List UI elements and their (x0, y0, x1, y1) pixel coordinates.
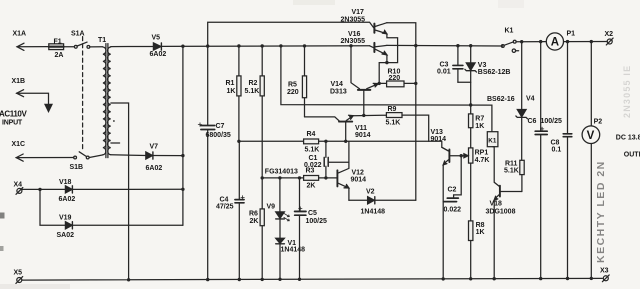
transistor V12 9014 (337, 141, 366, 200)
svg-text:A: A (551, 37, 559, 49)
wire main rail right of V16 (387, 44, 503, 47)
node R4-R1 (237, 140, 240, 143)
svg-text:R7: R7 (475, 116, 484, 123)
label AC110V INPUT (0, 110, 27, 127)
wire V2 line (349, 199, 416, 201)
svg-text:INPUT: INPUT (2, 120, 23, 127)
svg-text:D313: D313 (330, 89, 347, 96)
svg-text:2N3055: 2N3055 (341, 38, 366, 45)
svg-text:5.1K: 5.1K (245, 88, 260, 95)
svg-text:C4: C4 (220, 196, 229, 203)
node dropper-rail (414, 44, 417, 47)
svg-text:X1A: X1A (13, 31, 27, 38)
wire V11 emitter / R9 line (353, 114, 386, 117)
SECTION-C (437, 28, 640, 281)
capacitor C3 0.01 (437, 46, 463, 83)
resistor R2 5.1K (245, 46, 265, 178)
svg-text:C3: C3 (440, 61, 449, 68)
svg-text:R8: R8 (476, 222, 485, 229)
node aux rail R7 K1 (469, 103, 472, 106)
svg-text:1N4148: 1N4148 (281, 246, 306, 253)
svg-text:R11: R11 (505, 160, 518, 167)
svg-text:BS62-12B: BS62-12B (478, 69, 511, 76)
diode V2 1N4148 (361, 188, 386, 215)
wire C7 column (207, 46, 209, 280)
fuse F1 (49, 38, 74, 59)
wire V17 emitter jog (379, 34, 397, 84)
resistor R5 220 (287, 46, 307, 117)
terminal X5 (14, 269, 23, 283)
svg-text:4.7K: 4.7K (475, 157, 490, 164)
switch gang dashed link S1A-S1B (82, 37, 84, 152)
wire V17 collector to dropper column (387, 23, 416, 201)
terminal X1C (12, 141, 74, 161)
svg-text:X3: X3 (600, 268, 609, 275)
resistor R1 1K (226, 46, 242, 141)
svg-text:5.1K: 5.1K (305, 147, 320, 154)
ammeter P1 (546, 30, 575, 50)
zener V3 BS62-12B (465, 46, 511, 105)
svg-text:X1B: X1B (12, 78, 26, 85)
wire X4 down to V19 branch (40, 189, 65, 225)
svg-text:V12: V12 (352, 169, 365, 176)
svg-text:6A02: 6A02 (146, 165, 163, 172)
svg-text:0.01: 0.01 (437, 68, 451, 75)
switch S1A (71, 31, 103, 49)
svg-text:V19: V19 (59, 215, 72, 222)
capacitor C2 0.022 (444, 156, 462, 214)
resistor R8 1K (469, 221, 485, 279)
svg-text:6A02: 6A02 (59, 196, 76, 203)
svg-text:V5: V5 (152, 34, 161, 41)
diode V7 6A02 (146, 144, 183, 173)
svg-text:BS62-16: BS62-16 (487, 96, 515, 103)
wire rail after K1 (522, 41, 608, 43)
svg-text:R4: R4 (307, 131, 316, 138)
svg-text:1K: 1K (475, 123, 484, 130)
svg-text:X4: X4 (14, 181, 23, 188)
svg-text:AC110V: AC110V (0, 110, 27, 119)
node R3-R2 (261, 176, 264, 179)
svg-text:V11: V11 (355, 125, 367, 132)
scan streak bottom (0, 284, 70, 289)
svg-text:220: 220 (389, 75, 401, 82)
svg-text:X1C: X1C (12, 141, 26, 148)
svg-text:0.022: 0.022 (444, 207, 462, 214)
svg-text:KECHTY LED 2N: KECHTY LED 2N (595, 160, 607, 263)
wire top rail (208, 22, 374, 46)
node V7 junction (181, 154, 184, 157)
svg-text:2K: 2K (307, 182, 316, 189)
node R4-C1 (324, 140, 327, 143)
wire V13 emitter to ground (442, 165, 444, 279)
svg-text:V18: V18 (490, 200, 503, 207)
svg-text:FG314013: FG314013 (265, 169, 298, 176)
wire rectified DC node column (182, 46, 184, 225)
svg-text:T1: T1 (98, 37, 106, 44)
voltmeter P2 (582, 42, 602, 279)
svg-text:220: 220 (287, 89, 299, 96)
svg-text:X5: X5 (14, 269, 23, 276)
wire T1 secondary stub tap (111, 142, 120, 144)
svg-text:0.1: 0.1 (552, 146, 562, 153)
node V13 collector (460, 154, 463, 157)
switch S1B (70, 152, 90, 171)
wire aux rail (281, 46, 492, 132)
node V18 junction (181, 188, 184, 191)
svg-text:P1: P1 (567, 30, 576, 37)
node V11 collector (344, 140, 347, 143)
svg-text:5.1K: 5.1K (504, 168, 519, 175)
svg-text:R9: R9 (388, 106, 397, 113)
capacitor C5 100/25 (295, 178, 327, 279)
ground / bottom rail (22, 278, 603, 280)
scan streak top (293, 0, 335, 5)
diode V1 1N4148 (276, 238, 305, 279)
diode V19 SA02 (57, 215, 183, 239)
node V14 base tap (362, 114, 365, 117)
svg-text:47/25: 47/25 (216, 204, 234, 211)
terminal X3 (600, 268, 609, 282)
LED V9 (267, 178, 290, 238)
resistor R3 2K (304, 167, 319, 189)
terminal X2 (605, 31, 614, 45)
svg-text:C7: C7 (216, 123, 225, 130)
node R3-C1 (324, 176, 327, 179)
svg-text:R5: R5 (288, 81, 297, 88)
svg-text:9014: 9014 (355, 132, 371, 139)
svg-text:R2: R2 (249, 80, 258, 87)
wire T1 primary bottom to S1B (90, 155, 103, 158)
svg-text:R1: R1 (226, 80, 235, 87)
svg-text:S1B: S1B (70, 164, 84, 171)
capacitor C1 0.022 (304, 141, 349, 178)
SECTION-B (305, 9, 503, 280)
node R3-C5 (298, 176, 301, 179)
svg-text:C5: C5 (308, 210, 317, 217)
transistor V14 D313 (330, 46, 378, 116)
svg-text:1K: 1K (227, 88, 236, 95)
svg-text:SA02: SA02 (57, 232, 75, 239)
node emitter join (385, 61, 388, 64)
scan artifact left edge (0, 213, 5, 219)
svg-text:K1: K1 (488, 138, 497, 145)
svg-text:0.022: 0.022 (304, 162, 322, 169)
svg-text:3DG1008: 3DG1008 (486, 208, 516, 215)
node C7 top (206, 44, 209, 47)
diode V18 6A02 (40, 179, 183, 203)
node R3-V9 (278, 176, 281, 179)
svg-text:V3: V3 (478, 62, 487, 69)
svg-text:V: V (587, 130, 595, 142)
node raw DC top (181, 45, 184, 48)
svg-text:OUTPUT: OUTPUT (624, 152, 640, 159)
svg-text:V4: V4 (526, 95, 535, 102)
svg-text:V7: V7 (150, 144, 159, 151)
resistor R4 5.1K (304, 131, 320, 153)
svg-text:C2: C2 (448, 187, 457, 194)
svg-text:RP1: RP1 (475, 150, 489, 157)
potentiometer RP1 4.7K (461, 148, 489, 221)
svg-text:V13: V13 (431, 129, 444, 136)
transistor V16 2N3055 (341, 31, 387, 55)
svg-text:P2: P2 (594, 119, 603, 126)
svg-text:9014: 9014 (351, 177, 367, 184)
resistor R7 1K (469, 105, 485, 148)
svg-text:V18: V18 (59, 179, 72, 186)
terminal X1A (13, 31, 50, 51)
svg-text:6A02: 6A02 (150, 51, 167, 58)
wire V16 emitter down (386, 55, 388, 63)
wire R4 line (239, 141, 449, 151)
svg-text:2K: 2K (250, 218, 259, 225)
resistor R10 220 (379, 69, 416, 87)
svg-text:V17: V17 (352, 9, 365, 16)
resistor R6 2K (249, 178, 264, 280)
terminal X1B with neutral arrow (12, 78, 53, 112)
svg-text:100/25: 100/25 (306, 218, 328, 225)
switch K1 (501, 28, 521, 53)
wire K1 coil to V18 collector (493, 147, 499, 187)
node V14 collector rail tap (349, 44, 352, 47)
svg-text:2N3055 IE: 2N3055 IE (622, 65, 632, 118)
svg-text:1N4148: 1N4148 (361, 209, 386, 216)
node X4 junction (38, 188, 41, 191)
wire T1 center tap to ground (111, 103, 129, 280)
svg-text:F1: F1 (54, 38, 62, 45)
wire secondary bottom to V7 (111, 154, 146, 157)
svg-text:1K: 1K (476, 229, 485, 236)
svg-text:100/25: 100/25 (541, 118, 563, 125)
transistor V11 9014 (305, 115, 371, 141)
capacitor C6 100/25 (528, 42, 563, 279)
resistor R9 5.1K (386, 106, 429, 141)
svg-text:2A: 2A (55, 52, 64, 59)
svg-text:V14: V14 (331, 81, 344, 88)
wire C3-V3 bottom tie (458, 81, 471, 83)
svg-text:5.1K: 5.1K (386, 119, 401, 126)
node C7 ground (206, 278, 209, 281)
label DC 13.8 OUTPUT (616, 135, 640, 159)
svg-text:6800/35: 6800/35 (206, 132, 231, 139)
resistor R11 5.1K (504, 160, 524, 191)
transistor V18 3DG1008 (486, 186, 522, 279)
diode V5 6A02 (150, 34, 167, 58)
svg-text:V9: V9 (267, 203, 276, 210)
wire error amp rail R3 line (262, 177, 336, 179)
svg-text:R6: R6 (249, 210, 258, 217)
relay K1 coil box (487, 132, 498, 147)
capacitor C7 6800/35 (198, 123, 231, 139)
transistor V17 2N3055 (341, 9, 387, 34)
capacitor C8 0.1 (551, 42, 572, 279)
svg-text:C6: C6 (528, 118, 537, 125)
node V4 rail tap (520, 40, 523, 43)
terminal X4 (14, 181, 41, 194)
svg-text:X2: X2 (605, 31, 614, 38)
svg-text:C8: C8 (551, 139, 560, 146)
transistor V13 9014 (431, 129, 462, 165)
svg-text:2N3055: 2N3055 (341, 16, 366, 23)
capacitor C4 47/25 (216, 141, 244, 279)
svg-text:V2: V2 (366, 188, 375, 195)
svg-text:K1: K1 (505, 28, 514, 35)
node R10-dropper (414, 82, 417, 85)
svg-text:V16: V16 (348, 31, 361, 38)
node emitter-R10 (378, 82, 381, 85)
svg-text:9014: 9014 (431, 136, 447, 143)
wire main positive rail (left of V16) (111, 45, 370, 48)
transformer T1 (98, 37, 115, 158)
node aux rail top (279, 44, 282, 47)
zener V4 BS62-16 (487, 42, 535, 161)
svg-text:DC 13.8: DC 13.8 (616, 135, 640, 142)
